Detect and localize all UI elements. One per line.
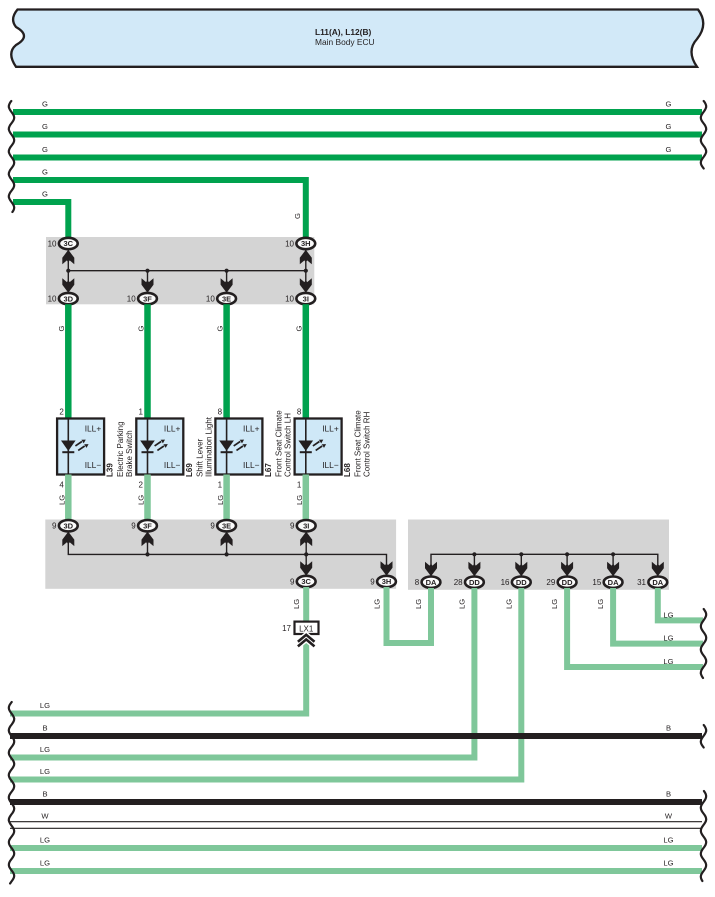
svg-text:G: G [295, 326, 304, 332]
svg-text:LG: LG [663, 836, 673, 845]
connector pin 10 3H [285, 238, 315, 249]
svg-text:31: 31 [637, 578, 646, 587]
arrow down to 3H band2 [381, 561, 393, 576]
arrow down to DA pin31 [652, 562, 664, 577]
connector band ECU 3C 3H to 3D 3F 3E 3I [46, 237, 314, 304]
svg-text:LG: LG [663, 859, 673, 868]
svg-text:DD: DD [516, 578, 527, 587]
svg-text:Brake Switch: Brake Switch [125, 430, 134, 477]
svg-text:B: B [666, 724, 671, 733]
svg-text:LG: LG [550, 599, 559, 609]
svg-text:ILL−: ILL− [243, 460, 260, 470]
arrow down to 3I [300, 278, 312, 293]
svg-text:3D: 3D [64, 294, 74, 303]
svg-text:W: W [41, 812, 49, 821]
svg-text:3F: 3F [143, 521, 152, 530]
connector pin 28 DD [454, 577, 484, 588]
connector pin 10 3C [48, 238, 78, 249]
svg-text:G: G [136, 326, 145, 332]
torn edge right LG stubs [701, 609, 706, 678]
wire LG from L67 [216, 475, 227, 521]
bus wire band1 [68, 250, 305, 293]
junction dots band3 [472, 552, 615, 556]
wire LG from L39 [58, 475, 69, 521]
arrow up to 3F band2 [142, 532, 154, 547]
arrow down to DD pin29 [561, 562, 573, 577]
svg-text:1: 1 [139, 408, 144, 417]
arrow up to 3D band2 [62, 532, 74, 547]
connector pin 9 3D [52, 520, 78, 531]
svg-text:ILL−: ILL− [322, 460, 339, 470]
svg-text:3F: 3F [143, 294, 152, 303]
svg-text:B: B [42, 724, 47, 733]
torn edge left top wires [9, 101, 14, 212]
svg-text:ILL−: ILL− [85, 460, 102, 470]
connector band junction 3D 3F 3E 3I to 3C 3H [45, 520, 396, 589]
connector pin 15 DA [592, 577, 622, 588]
svg-text:LG: LG [295, 495, 304, 505]
svg-text:LG: LG [663, 634, 673, 643]
svg-text:DA: DA [652, 578, 663, 587]
svg-text:LG: LG [663, 610, 673, 619]
wire G from Main Body ECU row 1 [13, 100, 702, 113]
wire G to L39 [57, 304, 68, 419]
svg-text:G: G [666, 145, 672, 154]
connector pin 16 DD [501, 577, 531, 588]
svg-text:DA: DA [608, 578, 619, 587]
connector pin 10 3F [127, 293, 157, 304]
svg-text:3C: 3C [301, 577, 311, 586]
lamp L68 Front Seat Climate Control Switch RH [295, 408, 372, 490]
wire LG bottom row 7 [10, 836, 702, 849]
connector pin 9 3E [210, 520, 236, 531]
wire G from Main Body ECU row 2 [13, 122, 702, 135]
svg-text:ILL+: ILL+ [85, 424, 102, 434]
wire LG bottom row 8 [10, 859, 702, 872]
wire LG from L68 [295, 475, 306, 521]
wire LG from 3C through LX1 to bottom row 1 [10, 587, 306, 714]
arrow up to 3E band2 [221, 532, 233, 547]
wire LG from DD28 to bottom row 3 [10, 588, 474, 758]
torn edge right top wires [701, 101, 706, 169]
connector pin 9 3F [131, 520, 157, 531]
wire B bottom row 2 [10, 724, 702, 737]
arrow up to 3H [300, 250, 312, 264]
svg-text:3C: 3C [64, 239, 74, 248]
connector pin 9 3C [290, 576, 316, 587]
connector pin 31 DA [637, 577, 667, 588]
svg-text:Main Body ECU: Main Body ECU [315, 37, 375, 47]
connector pin 10 3E [206, 293, 236, 304]
svg-text:ILL+: ILL+ [164, 424, 181, 434]
svg-text:L68: L68 [343, 463, 352, 477]
svg-text:L69: L69 [185, 463, 194, 477]
svg-text:Shift Lever: Shift Lever [195, 438, 204, 477]
wire LG from DD16 to bottom row 4 [10, 588, 521, 780]
lamp L69 Shift Lever Illumination Light [136, 408, 213, 490]
svg-text:LG: LG [663, 657, 673, 666]
svg-text:2: 2 [139, 481, 144, 490]
svg-text:DD: DD [469, 578, 480, 587]
wire LG 3H to DA pin 8 [373, 587, 432, 643]
svg-text:Front Seat Climate: Front Seat Climate [354, 410, 363, 477]
svg-text:B: B [42, 790, 47, 799]
svg-text:10: 10 [285, 239, 294, 248]
svg-text:28: 28 [454, 578, 463, 587]
arrow up to 3C [62, 250, 74, 264]
svg-text:10: 10 [127, 295, 136, 304]
svg-text:L11(A), L12(B): L11(A), L12(B) [315, 27, 372, 37]
wire LG from DA15 to right edge [596, 588, 703, 644]
wire W bottom row 6 [10, 812, 702, 829]
svg-text:ILL−: ILL− [164, 460, 181, 470]
svg-text:LG: LG [504, 599, 513, 609]
svg-text:29: 29 [546, 578, 555, 587]
svg-text:Electric Parking: Electric Parking [116, 421, 125, 477]
bus wire band2 [68, 532, 386, 576]
arrow down to DD pin28 [468, 562, 480, 577]
svg-text:W: W [665, 812, 673, 821]
lamp L67 Front Seat Climate Control Switch LH [215, 408, 292, 490]
arrow down to 3F [142, 278, 154, 293]
svg-text:Illumination Light: Illumination Light [204, 416, 213, 477]
svg-text:3E: 3E [222, 294, 231, 303]
svg-text:G: G [215, 326, 224, 332]
svg-text:9: 9 [131, 522, 136, 531]
svg-text:Front Seat Climate: Front Seat Climate [274, 410, 283, 477]
svg-text:2: 2 [59, 408, 64, 417]
svg-text:10: 10 [48, 239, 57, 248]
arrow down to DA pin15 [607, 562, 619, 577]
torn edge left bottom wires [9, 702, 14, 884]
connector band DA DD [408, 520, 669, 590]
svg-text:3I: 3I [303, 294, 309, 303]
svg-text:LG: LG [457, 599, 466, 609]
wire G to L69 [136, 304, 147, 419]
svg-text:G: G [42, 190, 48, 199]
off-page chevron below LX1 [298, 635, 315, 647]
svg-text:L67: L67 [264, 463, 273, 477]
svg-text:8: 8 [415, 578, 420, 587]
arrow down to 3C band2 [300, 561, 312, 576]
svg-text:G: G [42, 168, 48, 177]
torn edge right wire B [701, 725, 706, 748]
svg-text:LG: LG [40, 859, 50, 868]
svg-text:DD: DD [562, 578, 573, 587]
connector pin 9 3H [370, 576, 396, 587]
svg-text:ILL+: ILL+ [322, 424, 339, 434]
arrow up to 3I band2 [300, 532, 312, 547]
svg-text:LG: LG [40, 836, 50, 845]
connector pin 10 3I [285, 293, 315, 304]
connector pin 9 3I [290, 520, 316, 531]
svg-text:G: G [42, 122, 48, 131]
svg-text:15: 15 [592, 578, 601, 587]
wire LG from DD29 to right edge [550, 588, 703, 667]
svg-text:10: 10 [48, 295, 57, 304]
Main Body ECU banner [11, 10, 703, 67]
torn edge right bottom group [701, 791, 706, 881]
wire G to L68 [295, 304, 306, 419]
arrow down to 3E [221, 278, 233, 293]
svg-text:LG: LG [373, 599, 382, 609]
svg-text:DA: DA [426, 578, 437, 587]
svg-text:G: G [42, 145, 48, 154]
svg-text:G: G [42, 100, 48, 109]
svg-text:3I: 3I [303, 521, 309, 530]
arrow down to 3D [62, 278, 74, 293]
junction dots band1 [66, 269, 308, 273]
wire G row 4 to connector 3H [13, 168, 306, 239]
connector pin 8 DA [415, 577, 441, 588]
wire G from Main Body ECU row 3 [13, 145, 702, 158]
wire LG from DA31 to right edge [658, 588, 703, 620]
svg-text:LG: LG [40, 701, 50, 710]
svg-text:Control Switch RH: Control Switch RH [363, 411, 372, 477]
svg-text:G: G [57, 326, 66, 332]
svg-text:LG: LG [40, 767, 50, 776]
wire G to L67 [215, 304, 226, 419]
svg-text:4: 4 [59, 481, 64, 490]
svg-text:G: G [666, 122, 672, 131]
svg-text:LG: LG [216, 495, 225, 505]
svg-text:1: 1 [218, 481, 223, 490]
svg-text:LG: LG [137, 495, 146, 505]
svg-text:LG: LG [40, 745, 50, 754]
svg-text:B: B [666, 790, 671, 799]
wire G row 5 to connector 3C [13, 190, 68, 239]
svg-text:8: 8 [218, 408, 223, 417]
svg-text:3H: 3H [301, 239, 311, 248]
svg-text:G: G [293, 213, 302, 219]
wire LG from L69 [137, 475, 148, 521]
svg-text:10: 10 [285, 295, 294, 304]
svg-text:Control Switch LH: Control Switch LH [283, 413, 292, 477]
svg-text:3E: 3E [222, 521, 231, 530]
svg-text:9: 9 [290, 577, 295, 586]
svg-text:16: 16 [501, 578, 510, 587]
svg-text:3D: 3D [64, 521, 74, 530]
svg-text:LG: LG [414, 599, 423, 609]
svg-text:8: 8 [297, 408, 302, 417]
svg-text:LG: LG [292, 599, 301, 609]
junction dots band2 [145, 552, 308, 556]
svg-text:3H: 3H [382, 577, 392, 586]
connector LX1 pin 17 [282, 622, 318, 634]
svg-text:1: 1 [297, 481, 302, 490]
svg-text:10: 10 [206, 295, 215, 304]
lamp L39 Electric Parking Brake Switch [57, 408, 134, 490]
bus wire band3 [431, 554, 658, 575]
svg-text:L39: L39 [106, 463, 115, 477]
wire B bottom row 5 [10, 790, 702, 803]
svg-text:9: 9 [290, 522, 295, 531]
arrow down to DA pin8 [425, 562, 437, 577]
arrow down to DD pin16 [515, 562, 527, 577]
svg-text:17: 17 [282, 624, 291, 633]
svg-text:G: G [666, 100, 672, 109]
svg-text:LG: LG [58, 495, 67, 505]
svg-text:9: 9 [52, 522, 57, 531]
connector pin 29 DD [546, 577, 576, 588]
connector pin 10 3D [48, 293, 78, 304]
svg-text:LG: LG [596, 599, 605, 609]
svg-text:9: 9 [370, 577, 375, 586]
svg-text:ILL+: ILL+ [243, 424, 260, 434]
svg-text:9: 9 [210, 522, 215, 531]
